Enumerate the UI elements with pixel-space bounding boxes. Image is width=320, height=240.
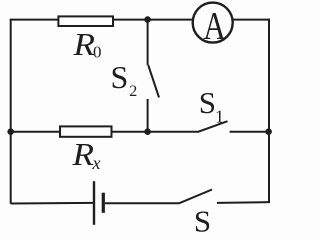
node top junction [144, 16, 151, 23]
ammeter A [193, 3, 233, 48]
switch S2 [148, 20, 159, 132]
resistor Rx [60, 126, 112, 136]
wire middle segment to S1 [112, 131, 198, 133]
node left middle junction [7, 128, 14, 135]
wire right vertical [268, 19, 270, 203]
wire bottom middle segment [105, 202, 179, 204]
wire bottom right segment [217, 201, 270, 204]
wire top middle segment [113, 19, 194, 21]
svg-text:0: 0 [93, 43, 102, 62]
resistor R0 [58, 16, 113, 26]
node right middle junction [265, 128, 272, 135]
svg-text:S: S [194, 203, 211, 232]
svg-text:2: 2 [129, 83, 137, 100]
node center middle junction [144, 128, 151, 135]
battery [94, 181, 103, 225]
wire bottom left segment [11, 202, 93, 205]
wire middle right segment [230, 131, 270, 133]
svg-text:A: A [203, 4, 226, 47]
svg-text:S: S [111, 59, 129, 95]
wire top left segment [10, 19, 58, 21]
switch S1 [198, 121, 228, 132]
svg-text:R: R [72, 27, 95, 62]
wire middle left segment [11, 131, 60, 133]
label S [194, 203, 211, 238]
wire left vertical [10, 20, 12, 204]
wire top right segment [234, 19, 271, 21]
svg-text:R: R [71, 137, 94, 172]
svg-text:1: 1 [215, 107, 224, 127]
label Rx [71, 137, 100, 173]
svg-text:x: x [92, 153, 101, 173]
switch S [179, 190, 212, 204]
svg-text:S: S [199, 85, 216, 120]
label S2 [111, 59, 138, 100]
label S1 [199, 85, 224, 127]
label R0 [72, 27, 101, 62]
